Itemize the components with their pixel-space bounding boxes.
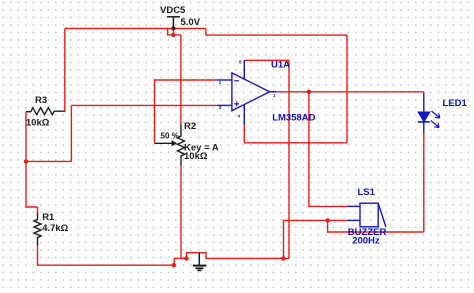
- wire big vertical to ground rail: [288, 60, 290, 258]
- svg-text:R3: R3: [35, 95, 47, 106]
- resistor R1: [34, 213, 41, 246]
- potentiometer wiper arrowhead: [172, 140, 178, 146]
- junction dot buzzer bottom: [325, 218, 329, 222]
- wire LED bottom: [423, 133, 425, 233]
- wire LED top: [423, 92, 425, 94]
- wire op-amp V- stub down: [243, 125, 245, 143]
- resistor R3: [26, 108, 65, 115]
- op-amp minus mark: [234, 80, 239, 82]
- wire op-amp V- to right: [244, 142, 347, 144]
- svg-text:VDC5: VDC5: [160, 5, 186, 16]
- junction dot ground left: [184, 256, 188, 260]
- LED1 arrows: [431, 111, 440, 128]
- wire R1 top lead join: [37, 207, 39, 213]
- wire ground hump: [187, 253, 290, 259]
- junction dot VDC lower: [171, 33, 175, 37]
- junction dot rail right: [281, 256, 285, 260]
- junction dot VDC pin (dark): [171, 26, 175, 30]
- svg-text:LS1: LS1: [358, 187, 376, 198]
- wire node to R3-R1 rail: [26, 160, 71, 162]
- potentiometer R2 body: [178, 125, 185, 166]
- wire output down to buzzer top: [309, 92, 348, 207]
- wire jog under VDC: [168, 29, 181, 35]
- junction dot output: [307, 90, 311, 94]
- wire pot bottom: [180, 165, 182, 258]
- svg-text:LED1: LED1: [443, 98, 468, 109]
- svg-text:200Hz: 200Hz: [352, 235, 380, 246]
- junction dot bottom rail: [172, 263, 176, 267]
- buzzer pin stubs: [348, 205, 361, 207]
- wire top rail upper: [65, 28, 206, 30]
- pin stub minus input: [217, 79, 233, 81]
- svg-text:R1: R1: [42, 212, 55, 223]
- wire pot top: [180, 35, 182, 125]
- op-amp plus mark: [234, 102, 239, 107]
- wire op-amp V+ top: [244, 59, 289, 61]
- wire wiper to minus input: [155, 80, 217, 143]
- wire buzzer bottom left: [284, 220, 348, 258]
- wire plus input: [71, 104, 217, 106]
- pin stub V+ top: [243, 60, 245, 79]
- power symbol VDC5: [167, 17, 180, 29]
- svg-text:4.7kΩ: 4.7kΩ: [42, 223, 68, 234]
- wire R3 right vertical: [64, 29, 66, 112]
- wire jog up left of ground: [174, 258, 186, 265]
- pin stub V- bottom: [243, 105, 245, 125]
- pin stub output: [270, 91, 277, 93]
- svg-text:10kΩ: 10kΩ: [26, 117, 50, 128]
- svg-text:U1A: U1A: [271, 60, 290, 71]
- wire +5 down right side: [346, 35, 348, 143]
- svg-text:50 %: 50 %: [161, 132, 179, 141]
- svg-text:R2: R2: [184, 121, 196, 132]
- junction node left rail: [24, 159, 28, 163]
- svg-text:LM358AD: LM358AD: [272, 113, 315, 124]
- potentiometer R2 wiper: [155, 142, 173, 144]
- wire top rail right: [206, 29, 347, 36]
- wire op-amp output: [277, 91, 424, 93]
- buzzer LS1: [348, 203, 386, 227]
- wire R3 left down: [26, 112, 38, 207]
- wire buzzer bottom to LED bottom: [328, 220, 424, 232]
- wire R1 bottom: [38, 245, 175, 266]
- LED1: [418, 94, 430, 133]
- wire power pin to junction: [172, 28, 174, 35]
- op-amp U1A: [217, 60, 277, 124]
- svg-text:5.0V: 5.0V: [181, 17, 201, 28]
- op-amp pin numbers: [219, 60, 276, 119]
- pin stub plus input: [217, 104, 233, 106]
- wire plus input down: [70, 105, 72, 161]
- svg-text:10kΩ: 10kΩ: [184, 151, 208, 162]
- ground: [193, 253, 207, 271]
